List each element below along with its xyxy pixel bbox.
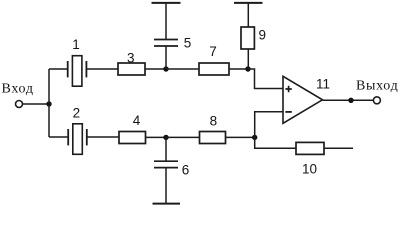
- node D: [252, 135, 257, 140]
- common rail top-left: [152, 2, 181, 4]
- node B: [245, 66, 250, 71]
- wire resistor 3 to node A: [145, 68, 166, 70]
- resistor R4: [119, 132, 146, 144]
- node C: [163, 135, 168, 140]
- svg-text:7: 7: [209, 44, 217, 59]
- wire node output to output terminal: [351, 99, 373, 101]
- wire crystal 2 to resistor 4: [87, 136, 119, 138]
- wire node A to resistor 7: [166, 68, 199, 70]
- wire input junction vertical: [48, 69, 50, 137]
- output terminal: [373, 97, 380, 104]
- resistor R8: [200, 132, 226, 144]
- op-amp 11: [283, 76, 323, 123]
- wire crystal 1 to resistor 3: [86, 68, 118, 70]
- wire node C to capacitor 6: [165, 137, 167, 161]
- wire op-amp output: [323, 99, 352, 101]
- node A: [163, 66, 168, 71]
- node output: [348, 98, 353, 103]
- wire capacitor 5 to top rail: [165, 3, 167, 39]
- svg-text:8: 8: [210, 113, 218, 128]
- wire node C to resistor 8: [166, 136, 200, 138]
- wire resistor 8 to node D: [226, 136, 255, 138]
- wire node B to resistor 9: [247, 49, 249, 69]
- svg-text:5: 5: [184, 35, 192, 50]
- svg-text:2: 2: [73, 105, 81, 120]
- wire to crystal 2: [49, 136, 68, 138]
- common rail bottom: [153, 203, 181, 205]
- resistor R9: [241, 27, 254, 49]
- wire to crystal 1: [49, 68, 68, 70]
- wire node A to capacitor 5: [165, 47, 167, 70]
- resistor R3: [118, 63, 145, 75]
- common rail top-right: [234, 2, 263, 4]
- wire capacitor 6 to bottom rail: [165, 168, 167, 204]
- node input junction: [46, 101, 51, 106]
- wire resistor 9 to top rail: [247, 3, 249, 27]
- svg-text:10: 10: [302, 162, 317, 177]
- wire resistor 10 right lead: [324, 147, 353, 149]
- svg-text:3: 3: [127, 50, 135, 65]
- wire input terminal to junction: [23, 103, 49, 105]
- wire resistor 7 to node B: [229, 68, 248, 70]
- svg-text:Вход: Вход: [2, 81, 34, 96]
- input terminal: [16, 101, 23, 108]
- resistor R7: [199, 63, 229, 75]
- svg-text:11: 11: [316, 76, 330, 91]
- svg-text:9: 9: [259, 28, 267, 43]
- resistor R10: [296, 142, 324, 154]
- svg-text:Выход: Выход: [356, 78, 398, 93]
- wire resistor 4 to node C: [146, 136, 167, 138]
- crystal resonator 2: [68, 124, 87, 155]
- capacitor C6: [154, 161, 178, 167]
- wire node D to op-amp minus input: [255, 112, 283, 138]
- svg-text:4: 4: [133, 113, 141, 128]
- crystal resonator 1: [68, 56, 87, 86]
- wire node B to op-amp plus input: [248, 69, 283, 89]
- svg-text:6: 6: [182, 162, 190, 177]
- wire node D down to resistor 10: [255, 137, 296, 148]
- svg-text:1: 1: [72, 37, 80, 52]
- capacitor C5: [154, 40, 178, 47]
